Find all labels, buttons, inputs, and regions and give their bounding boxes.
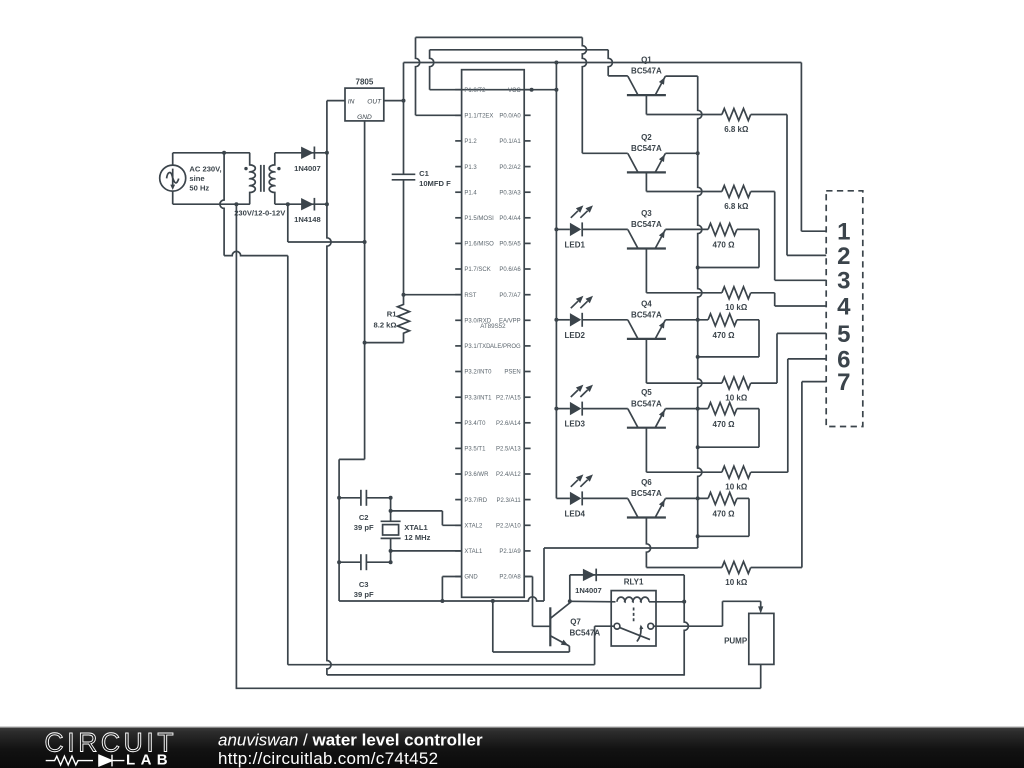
svg-text:10 kΩ: 10 kΩ (725, 578, 748, 587)
wire R8 loop down (758, 409, 760, 448)
resistor R10 470 (708, 492, 737, 504)
wire Q1 base row to R2 (646, 114, 722, 116)
transistor Q1 BC547A (627, 94, 666, 96)
voltage regulator U2 7805 body (345, 88, 384, 121)
wire Q2 base row to R3 (646, 191, 722, 193)
svg-text:anuviswan / water level contro: anuviswan / water level controller (218, 731, 483, 750)
wire Q3 emitter to R4 (665, 228, 708, 230)
wire pump bottom lead (760, 664, 762, 688)
wire crystal node down to C3 (390, 551, 392, 562)
LED4 (556, 497, 570, 499)
svg-text:P3.4/T0: P3.4/T0 (464, 421, 486, 427)
svg-text:5: 5 (837, 321, 850, 348)
svg-text:470 Ω: 470 Ω (713, 510, 736, 519)
svg-text:P0.1/A1: P0.1/A1 (499, 139, 521, 145)
IC pin P3.0/RXD (left row 10) (455, 319, 461, 321)
svg-text:LED4: LED4 (565, 509, 586, 518)
svg-text:P0.0/A0: P0.0/A0 (499, 114, 521, 120)
IC U1 AT89S52 body (462, 70, 525, 598)
node crystal bottom (389, 549, 393, 553)
wire C1 to RST node (403, 180, 405, 295)
IC pin P0.6/A6 (right row 8) (524, 268, 530, 270)
svg-text:C3: C3 (359, 580, 369, 589)
svg-text:P2.5/A13: P2.5/A13 (496, 447, 521, 453)
svg-text:LAB: LAB (126, 752, 173, 768)
wire VCC tap down to IC VCC pin (555, 63, 557, 90)
svg-text:P1.5/MOSI: P1.5/MOSI (464, 216, 494, 222)
wire IC GND pin down (441, 577, 443, 602)
wire Q1 collector lead (608, 75, 628, 77)
wire AC source bottom lead (172, 191, 174, 204)
wire RST node to IC RST pin (404, 294, 462, 296)
IC pin P1.2 (left row 3) (455, 140, 461, 142)
wire GND row up to emitter-bus return (543, 548, 545, 601)
IC pin RST (left row 9) (455, 294, 461, 296)
wire crystal top lead (390, 498, 392, 522)
svg-text:Q6: Q6 (641, 478, 652, 487)
wire R6 loop return to bus (698, 356, 759, 358)
node IC GND on GND row (440, 599, 444, 603)
wire XTAL2 pin (442, 524, 461, 526)
transistor Q6 BC547A (627, 516, 666, 518)
transistor Q2 BC547A (627, 171, 666, 173)
wire Q4 base lead (645, 339, 647, 383)
svg-text:470 Ω: 470 Ω (713, 420, 736, 429)
IC pin GND (left row 20) (455, 576, 461, 578)
wire AC-top net down rail (287, 256, 289, 665)
node C2 to crystal (389, 496, 393, 500)
wire XTAL2 jog (441, 511, 443, 525)
node 0V rail joins GND net (363, 240, 367, 244)
svg-text:LED2: LED2 (565, 331, 586, 340)
IC pin P3.6/WR (left row 16) (455, 473, 461, 475)
wire R6 loop down (758, 320, 760, 357)
transistor Q7 BC547A (549, 607, 551, 646)
IC pin P0.1/A1 (right row 3) (524, 140, 530, 142)
wire R8 right lead (737, 408, 759, 410)
IC pin VCC (right row 1) (524, 89, 530, 91)
node R4 return on bus (696, 266, 700, 270)
pump M1 body (749, 613, 774, 664)
node secondary-bottom junction (286, 202, 290, 206)
wire flyback diode row (570, 574, 684, 576)
IC pin P1.5/MOSI (left row 6) (455, 217, 461, 219)
relay RLY1 switch contacts (614, 623, 620, 629)
svg-text:GND: GND (464, 575, 478, 581)
svg-text:BC547A: BC547A (631, 399, 662, 408)
wire emitter-bus return row (544, 547, 698, 549)
wire Q7 base net down (532, 577, 534, 627)
svg-text:7: 7 (837, 369, 850, 396)
svg-text:1: 1 (837, 219, 850, 246)
diode D1 1N4007 (301, 147, 314, 159)
crystal XTAL1 (381, 520, 401, 522)
svg-text:P1.2: P1.2 (464, 139, 477, 145)
IC pin P3.3/INT1 (left row 13) (455, 396, 461, 398)
capacitor C2 (339, 497, 361, 499)
capacitor C3 (339, 561, 361, 563)
node coil return on +12V rail (683, 675, 685, 677)
wire AC-top net down (hops bottom row) (220, 153, 224, 256)
wire +12V to 7805 IN (327, 100, 345, 102)
svg-text:P3.5/T1: P3.5/T1 (464, 447, 486, 453)
IC pin P2.1/A9 (right row 19) (524, 550, 530, 552)
wire Q7 base lead (533, 625, 551, 627)
capacitor C1 (392, 173, 416, 175)
svg-text:470 Ω: 470 Ω (713, 241, 736, 250)
wire VCC feed top run (404, 62, 802, 64)
wire secondary-bottom net down (287, 204, 289, 242)
node R1 bottom joins GND net (363, 341, 367, 345)
wire P1.1 pin row (416, 114, 462, 116)
AC source polarity arrow (172, 169, 174, 187)
wire AC to switch common (595, 625, 615, 627)
wire R4 loop down (758, 229, 760, 267)
svg-text:P2.6/A14: P2.6/A14 (496, 421, 521, 427)
wire Q7 emitter to GND row (492, 601, 494, 652)
svg-text:P3.3/INT1: P3.3/INT1 (464, 395, 492, 401)
wire P1.1 net down to Q2 collector (hops P1.0 and VCC feed) (582, 37, 586, 153)
svg-text:BC547A: BC547A (631, 220, 662, 229)
IC pin P2.7/A15 (right row 13) (524, 396, 530, 398)
LED3 (556, 408, 570, 410)
IC pin P1.4 (left row 5) (455, 191, 461, 193)
wire AC-top row to switch (288, 664, 595, 666)
wire probe pin 7 (802, 381, 826, 383)
pump feed arrow (760, 601, 762, 608)
svg-text:ALE/PROG: ALE/PROG (490, 344, 521, 350)
wire AC bottom rail corner (235, 687, 238, 689)
node AC-bottom junction (234, 202, 238, 206)
resistor R3 6.8k (722, 186, 751, 198)
svg-text:12 MHz: 12 MHz (404, 533, 430, 542)
svg-text:P3.1/TXD: P3.1/TXD (464, 344, 491, 350)
IC pin P1.0/T2 (left row 1) (455, 89, 461, 91)
svg-text:P0.2/A2: P0.2/A2 (499, 165, 521, 171)
resistor R6 470 (708, 314, 737, 326)
wire probe pin 5 (777, 332, 826, 334)
wire pump return rail to AC-bottom (236, 687, 761, 689)
wire P1.0 net top run (430, 49, 609, 51)
IC pin P3.1/TXD (left row 11) (455, 345, 461, 347)
svg-text:39 pF: 39 pF (354, 590, 374, 599)
node Q6 emitter on bus (696, 496, 700, 500)
wire Q2 base lead (645, 172, 647, 191)
node D1 cathode to +12V rail (325, 151, 329, 155)
wire Q1 base lead (645, 95, 647, 114)
wire Q5 base lead (645, 428, 647, 473)
svg-text:10 kΩ: 10 kΩ (725, 483, 748, 492)
node LED3 anode on bus (554, 407, 558, 411)
svg-text:BC547A: BC547A (631, 311, 662, 320)
relay RLY1 box (611, 591, 656, 646)
relay RLY1 actuation arrow (637, 627, 641, 642)
wire Q5 emitter to bus and R8 (665, 408, 708, 410)
resistor R7 10k (722, 377, 751, 389)
wire flyback anode down to collector node (569, 575, 571, 601)
IC pin P1.7/SCK (left row 8) (455, 268, 461, 270)
svg-text:10 kΩ: 10 kΩ (725, 393, 748, 402)
wire Q3 base lead (645, 249, 647, 293)
node RST junction (402, 293, 406, 297)
wire probe 4 net down (774, 293, 776, 306)
svg-text:6.8 kΩ: 6.8 kΩ (724, 202, 749, 211)
node C2 to GND rail (337, 496, 341, 500)
wire Q7 emitter return (493, 651, 570, 653)
IC pin P1.1/T2EX (left row 2) (455, 114, 461, 116)
node Q4 emitter on bus (696, 318, 700, 322)
IC pin XTAL1 (left row 19) (455, 550, 461, 552)
svg-text:P3.2/INT0: P3.2/INT0 (464, 370, 492, 376)
wire R3 to probe 3 net (751, 191, 775, 193)
node Q7 emitter on GND row (491, 599, 495, 603)
probe connector box (water tank probes) (826, 191, 863, 427)
wire R11 to probe 7 net (751, 567, 802, 569)
svg-text:P1.6/MISO: P1.6/MISO (464, 242, 494, 248)
svg-text:3: 3 (837, 268, 850, 295)
svg-text:Q3: Q3 (641, 209, 652, 218)
transformer T1 primary winding (250, 153, 256, 204)
svg-text:LED3: LED3 (565, 420, 586, 429)
wire XTAL2 to crystal top (391, 510, 443, 512)
wire +12V rail down (hops 0V row and AC row) (327, 101, 331, 675)
IC pin P0.2/A2 (right row 4) (524, 166, 530, 168)
svg-text:P0.3/A3: P0.3/A3 (499, 190, 521, 196)
svg-text:10 kΩ: 10 kΩ (725, 303, 748, 312)
svg-text:Q4: Q4 (641, 299, 652, 308)
wire P1.1 net top run (416, 36, 583, 38)
diode D3 1N4007 flyback (583, 569, 596, 581)
svg-text:GND: GND (357, 114, 372, 121)
svg-text:230V/12-0-12V: 230V/12-0-12V (234, 209, 286, 218)
wire coil return down to +12V rail (hops switch row) (684, 602, 688, 676)
phase dot primary (244, 167, 247, 170)
transistor Q4 BC547A (627, 338, 666, 340)
resistor R1 8.2k (vertical) (398, 295, 410, 343)
wire secondary bottom to D2 row (275, 203, 327, 205)
wire switch NO contact to pump (654, 625, 723, 627)
wire probe 5 net up (776, 333, 778, 383)
wire Q3 base row to R5 (646, 292, 722, 294)
wire probe pin 1 (801, 230, 826, 232)
svg-text:R1: R1 (387, 310, 397, 319)
resistor R11 10k (722, 562, 751, 574)
svg-text:RST: RST (464, 293, 476, 299)
IC pin P0.3/A3 (right row 5) (524, 191, 530, 193)
svg-text:C1: C1 (419, 169, 429, 178)
svg-text:LED1: LED1 (565, 240, 586, 249)
node R6 return on bus (696, 355, 700, 359)
wire R2 to probe 2 net (751, 114, 787, 116)
transistor Q5 BC547A (627, 427, 666, 429)
svg-text:P3.6/WR: P3.6/WR (464, 472, 489, 478)
svg-text:sine: sine (189, 174, 204, 183)
node Q7 collector (568, 599, 572, 603)
wire AC source top lead (172, 153, 174, 165)
IC pin P2.6/A14 (right row 14) (524, 422, 530, 424)
svg-text:P1.4: P1.4 (464, 190, 477, 196)
wire P1.1 net up (hops VCC feed) (416, 37, 420, 115)
node R10 return on bus (696, 534, 700, 538)
svg-text:P1.0/T2: P1.0/T2 (464, 88, 486, 94)
wire Q6 emitter to bus and R10 (665, 497, 708, 499)
wire Q2 emitter to bus (665, 152, 697, 154)
svg-text:P1.7/SCK: P1.7/SCK (464, 267, 490, 273)
IC pin P0.4/A4 (right row 6) (524, 217, 530, 219)
node VCC to LED anode bus (554, 88, 558, 92)
phase dot secondary (277, 167, 280, 170)
svg-text:BC547A: BC547A (631, 144, 662, 153)
svg-text:P0.5/A5: P0.5/A5 (499, 242, 521, 248)
svg-text:IN: IN (348, 99, 355, 106)
diode D2 1N4148 (301, 198, 314, 210)
resistor R5 10k (722, 287, 751, 299)
IC pin P1.3 (left row 4) (455, 166, 461, 168)
svg-text:6.8 kΩ: 6.8 kΩ (724, 125, 749, 134)
IC pin P0.7/A7 (right row 9) (524, 294, 530, 296)
wire probe pin 4 (775, 305, 827, 307)
IC pin XTAL2 (left row 18) (455, 524, 461, 526)
wire emitter bus bottom corner (697, 546, 699, 548)
wire VCC down to C1 (403, 101, 405, 175)
svg-text:P1.3: P1.3 (464, 165, 477, 171)
resistor R4 470 (708, 223, 737, 235)
svg-text:PUMP: PUMP (724, 637, 748, 646)
node Q2 emitter on bus (696, 151, 700, 155)
relay RLY1 coil (617, 597, 649, 602)
wire +12V bottom rail to relay coil return (327, 674, 684, 676)
wire relay coil to +12V return (649, 601, 684, 603)
node LED1 anode on bus (554, 227, 558, 231)
svg-text:P0.4/A4: P0.4/A4 (499, 216, 521, 222)
wire Q6 base row to R11 (646, 567, 722, 569)
node C3 to GND rail (337, 560, 341, 564)
IC pin P3.7/RD (left row 17) (455, 499, 461, 501)
svg-text:BC547A: BC547A (631, 67, 662, 76)
svg-text:XTAL2: XTAL2 (464, 524, 483, 530)
wire Q6 base lead (hops emitter-bus return) (646, 518, 650, 568)
wire GND net down (364, 343, 366, 460)
IC pin ALE/PROG (right row 11) (524, 345, 530, 347)
relay RLY1 switch arm (620, 628, 650, 640)
wire IC GND pin (442, 576, 461, 578)
svg-text:C2: C2 (359, 513, 369, 522)
wire 0V row to 7805 GND net (288, 241, 365, 243)
IC pin P3.4/T0 (left row 14) (455, 422, 461, 424)
svg-text:XTAL1: XTAL1 (404, 523, 428, 532)
wire R9 to probe 6 net (751, 471, 788, 473)
svg-text:10MFD F: 10MFD F (419, 179, 451, 188)
wire probe 6 net up (787, 359, 789, 472)
IC pin P2.0/A8 (right row 20) (524, 576, 530, 578)
transistor Q3 BC547A (627, 247, 666, 249)
svg-text:OUT: OUT (367, 99, 382, 106)
IC pin P3.5/T1 (left row 15) (455, 447, 461, 449)
svg-text:P2.1/A9: P2.1/A9 (499, 549, 521, 555)
svg-text:VCC: VCC (508, 88, 521, 94)
svg-text:AC 230V,: AC 230V, (189, 164, 221, 173)
wire GND net down to bottom row (338, 459, 340, 601)
wire R5 to probe 4 net (751, 292, 775, 294)
node VCC feed tap for IC (554, 61, 558, 65)
resistor R2 6.8k (722, 109, 751, 121)
resistor R9 10k (722, 466, 751, 478)
wire Q4 base row to R7 (646, 382, 722, 384)
wire R4 loop return to bus (698, 267, 759, 269)
svg-text:BC547A: BC547A (631, 489, 662, 498)
svg-text:P2.0/A8: P2.0/A8 (499, 575, 521, 581)
svg-text:P3.7/RD: P3.7/RD (464, 498, 487, 504)
svg-text:P2.2/A10: P2.2/A10 (496, 524, 521, 530)
wire P2.0 pin to Q7 base net (524, 576, 532, 578)
svg-text:4: 4 (837, 293, 851, 320)
wire R8 loop return to bus (698, 446, 759, 448)
relay RLY1 actuation dashed link (633, 608, 635, 622)
AC source V1 circle (160, 165, 186, 191)
wire Q1 emitter to bus (665, 75, 697, 77)
svg-text:2: 2 (837, 243, 850, 270)
wire AC top row to transformer primary (173, 152, 250, 154)
wire R7 to probe 5 net (751, 382, 777, 384)
svg-text:1N4007: 1N4007 (294, 164, 321, 173)
svg-text:8.2 kΩ: 8.2 kΩ (374, 321, 397, 330)
wire AC-top net jog right (hops AC-bottom rail) (224, 251, 288, 255)
node LED2 anode on bus (554, 318, 558, 322)
wire Q2 collector lead (582, 152, 627, 154)
svg-text:50 Hz: 50 Hz (189, 183, 209, 192)
wire GND net jog left (339, 458, 365, 460)
LED2 (556, 319, 570, 321)
wire pump feed top (723, 600, 761, 602)
svg-text:P0.6/A6: P0.6/A6 (499, 267, 521, 273)
wire probe pin 6 (788, 358, 826, 360)
node coil return (682, 600, 686, 604)
node crystal top (389, 509, 393, 513)
wire probe pin 3 (775, 279, 827, 281)
svg-text:http://circuitlab.com/c74t452: http://circuitlab.com/c74t452 (218, 749, 438, 768)
svg-text:P0.7/A7: P0.7/A7 (499, 293, 521, 299)
transformer T1 core (260, 165, 262, 192)
node VCC at 7805 output (402, 99, 406, 103)
IC pin P2.2/A10 (right row 18) (524, 524, 530, 526)
wire P1.0 net up (hops VCC feed) (430, 50, 434, 90)
svg-text:Q7: Q7 (570, 618, 581, 627)
svg-text:XTAL1: XTAL1 (464, 549, 483, 555)
wire P1.0 pin row through IC to VCC (430, 89, 557, 91)
wire R4 right lead (737, 228, 759, 230)
node D2 cathode junction (325, 202, 329, 206)
node C3 to crystal (389, 560, 393, 564)
transformer T1 secondary winding (269, 153, 275, 204)
IC pin P2.5/A13 (right row 15) (524, 447, 530, 449)
node R8 return on bus (696, 445, 700, 449)
svg-text:P2.7/A15: P2.7/A15 (496, 395, 521, 401)
svg-text:BC547A: BC547A (570, 629, 601, 638)
svg-text:7805: 7805 (356, 77, 374, 86)
IC pin P2.4/A12 (right row 16) (524, 473, 530, 475)
svg-text:PSEN: PSEN (504, 370, 520, 376)
wire probe 7 net up (801, 382, 803, 568)
wire VCC node up to VCC feed (403, 63, 405, 101)
wire LED anode bus (555, 90, 557, 499)
wire probe pin 2 (787, 254, 826, 256)
svg-text:Q2: Q2 (641, 133, 652, 142)
wire P1.0 net down to Q1 collector (hops VCC feed) (608, 50, 612, 76)
wire R10 loop down (748, 498, 750, 536)
IC pin P0.5/A5 (right row 7) (524, 242, 530, 244)
svg-text:RLY1: RLY1 (624, 577, 644, 586)
wire Q5 base row to R9 (646, 471, 722, 473)
